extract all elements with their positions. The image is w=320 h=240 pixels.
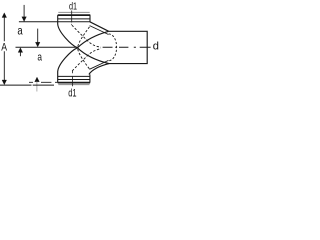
- extension line top socket mouth plane: [19, 21, 58, 23]
- svg-text:d: d: [153, 41, 159, 53]
- svg-text:a: a: [37, 51, 42, 63]
- bottom diagonal from socket to outlet corner: [89, 64, 109, 75]
- extension line main axis (left): [16, 46, 78, 48]
- d1 axis top: [71, 11, 73, 25]
- dimension A bottom arrowhead: [2, 80, 7, 85]
- inner wall line bottom: [89, 60, 108, 69]
- dimension a top: outer down arrow: [23, 5, 25, 17]
- svg-text:A: A: [1, 42, 7, 54]
- hidden edge D1' (dashed, bottom socket to axis): [72, 49, 101, 71]
- body outline: bottom-left branch wall curving to upper-right outlet corner: [58, 31, 109, 82]
- dashed ellipse arc inside outlet: [109, 34, 117, 61]
- dash-dot extension at bottom socket bottom edge: [29, 81, 58, 83]
- dimension a bottom: lower up arrow: [35, 77, 40, 82]
- main axis dash-dot centerline: [103, 46, 151, 48]
- extension line bottom mouth plane: [0, 84, 54, 86]
- dimension A top arrowhead: [2, 13, 7, 18]
- dimension A vertical line: [3, 17, 5, 80]
- outlet rectangle (open left side): [109, 31, 148, 63]
- inner wall line top: [90, 26, 109, 35]
- hidden edge D2' (dashed, bottom socket right to center X): [78, 49, 90, 69]
- top diagonal from socket to outlet corner: [90, 22, 109, 32]
- dimension a bottom: upper down arrow at axis: [37, 29, 39, 43]
- top socket d1: [58, 11, 89, 13]
- svg-text:d1: d1: [69, 1, 77, 12]
- svg-text:a: a: [17, 26, 23, 38]
- d1 axis bottom: [71, 71, 73, 87]
- body outline: top-left branch wall curving to lower-right outlet corner: [58, 22, 109, 64]
- hidden edge D1 (dashed, top socket to axis): [72, 25, 101, 47]
- hidden edge D2 (dashed, socket right to center X): [78, 27, 90, 47]
- svg-text:d1: d1: [68, 88, 76, 100]
- dimension a top: outer up arrow at axis: [19, 52, 21, 56]
- bottom socket d1: [58, 75, 90, 77]
